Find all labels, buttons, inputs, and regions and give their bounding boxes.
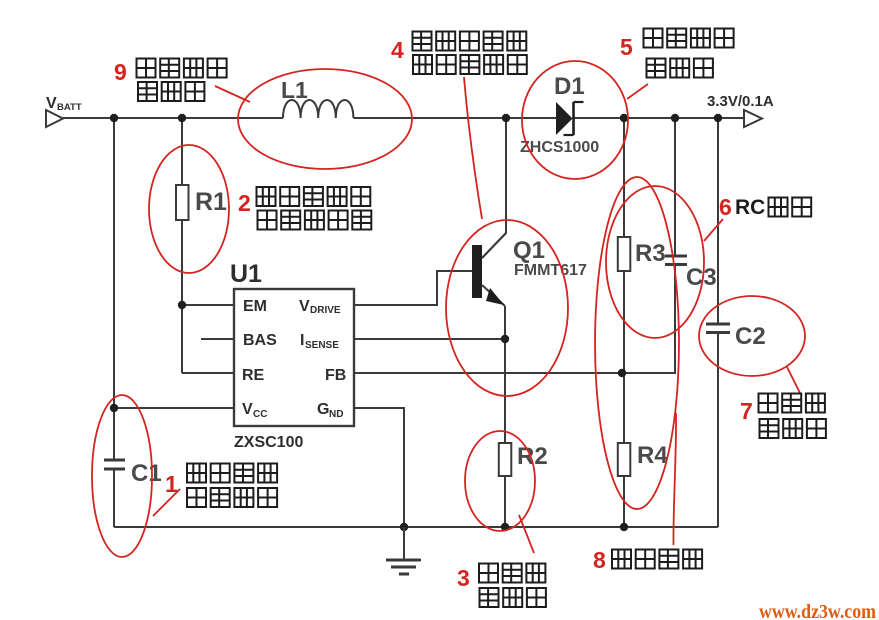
node ground rail / R2: [501, 523, 509, 531]
svg-text:L1: L1: [281, 77, 308, 103]
wire EM pin to R1 node: [182, 304, 234, 306]
svg-text:RE: RE: [242, 367, 265, 384]
wire R1 bottom down to RE row: [181, 220, 183, 373]
svg-text:D1: D1: [554, 73, 585, 100]
pin VCC: [242, 401, 267, 420]
wire R4 top from FB node: [623, 373, 625, 443]
resistor R4: [618, 442, 669, 476]
annotation text 9 line1: shu-chu-sheng-dian: [137, 59, 227, 78]
wire left branch VBATT node down to C1: [113, 118, 115, 459]
annotation tall ellipse around R3 R4 divider: [595, 177, 679, 509]
svg-text:I: I: [300, 332, 304, 349]
svg-text:FB: FB: [325, 367, 346, 384]
node ground rail / GND pin: [400, 523, 408, 531]
wire GND pin down to ground rail: [354, 408, 404, 527]
svg-text:CC: CC: [253, 409, 267, 420]
capacitor C2: [706, 323, 766, 350]
svg-text:EM: EM: [243, 298, 267, 315]
svg-text:3: 3: [457, 565, 470, 591]
annotation text 6: bu-chang: [769, 198, 812, 217]
annotation ellipse around R3 C3: [606, 186, 704, 338]
wire top rail left (VBATT to L1): [63, 117, 283, 119]
wire bottom ground rail: [114, 526, 718, 528]
wire BAS pin stub: [201, 338, 234, 340]
annotation ellipse around Q1: [446, 220, 568, 396]
annotation text 3 line1: dian-liu-jian: [479, 564, 545, 583]
wire RE pin: [182, 372, 234, 374]
inductor L1: [283, 100, 353, 118]
node VBATT rail / C1 branch: [110, 114, 118, 122]
ground: [386, 527, 421, 574]
wire Q1 emitter down through ISENSE node to R2: [504, 306, 506, 443]
wire VDRIVE pin to Q1 base: [354, 271, 472, 305]
diode D1 ZHCS1000: [556, 102, 584, 135]
leader line 5 to D1: [627, 84, 648, 99]
annotation text 9 line2: ya-dian-gan: [138, 82, 204, 101]
annotation text 4 line1: shu-chu-sheng-ya-gong: [413, 32, 527, 51]
annotation text 1 line2: lv-bo-dian-rong: [187, 488, 277, 507]
svg-text:SENSE: SENSE: [305, 340, 339, 351]
wire VCC pin to left branch: [114, 407, 234, 409]
output terminal arrow: [744, 110, 762, 127]
annotation ellipse around C2: [699, 296, 805, 376]
svg-text:BAS: BAS: [243, 332, 277, 349]
capacitor C3: [665, 256, 717, 291]
svg-text:Q1: Q1: [513, 237, 545, 264]
wire R3 top to output rail: [623, 118, 625, 237]
svg-text:ZXSC100: ZXSC100: [234, 434, 303, 451]
node ISENSE / Q1 emitter: [501, 335, 509, 343]
annotation text 8: shu-chu-qu-yang: [612, 550, 702, 569]
op-amp U1 ZXSC100 body: [234, 289, 354, 426]
svg-text:C2: C2: [735, 323, 766, 350]
svg-text:8: 8: [593, 547, 606, 573]
svg-text:ND: ND: [329, 409, 343, 420]
resistor R2: [499, 443, 548, 476]
svg-text:R3: R3: [635, 240, 666, 267]
svg-text:V: V: [46, 95, 57, 112]
wire top rail right (D1 to output): [573, 117, 744, 119]
svg-text:7: 7: [740, 398, 753, 424]
wire C3 top to output rail: [674, 118, 676, 255]
svg-text:FMMT617: FMMT617: [514, 262, 587, 279]
svg-text:6: 6: [719, 194, 732, 220]
annotation text 1 line1: dian-yuan-gong-dian: [187, 464, 277, 483]
wire R3 bottom to FB node: [623, 271, 625, 373]
wire R4 bottom to ground rail: [623, 476, 625, 527]
leader line 8 to divider: [673, 413, 676, 545]
svg-text:G: G: [317, 401, 329, 418]
svg-text:C1: C1: [131, 460, 162, 487]
annotation text 4 line2: gong-lv-kai-guan-guan: [413, 55, 527, 74]
svg-text:U1: U1: [230, 260, 262, 288]
svg-text:5: 5: [620, 34, 633, 60]
svg-text:BATT: BATT: [57, 102, 82, 113]
node EM / R1: [178, 301, 186, 309]
svg-text:4: 4: [391, 37, 404, 63]
wire FB pin to divider and C3: [354, 372, 676, 374]
capacitor C1: [104, 460, 162, 487]
node VCC / C1 branch: [110, 404, 118, 412]
node ground rail / R4: [620, 523, 628, 531]
svg-text:DRIVE: DRIVE: [310, 305, 341, 316]
annotation text 2 line1: gao-di-gong-lv-gong: [257, 187, 371, 206]
annotation text 5 line2: er-ji-guan: [647, 59, 713, 78]
annotation text 5 line1: shu-chu-sheng-ya: [644, 29, 734, 48]
node output rail / R3: [620, 114, 628, 122]
annotation text 7 line1: shu-chu-lv: [759, 394, 825, 413]
svg-text:9: 9: [114, 59, 127, 85]
leader line 4 to Q1: [464, 77, 482, 219]
annotation ellipse around C1: [92, 395, 152, 557]
wire C3 bottom to FB wire: [674, 265, 676, 373]
annotation text 3 line2: ce-dian-zu: [480, 588, 546, 607]
annotation text 2 line2: zuo-mo-shi-she-ding: [258, 211, 372, 230]
annotation ellipse around R2: [465, 431, 535, 531]
wire ISENSE pin to Q1 emitter: [354, 338, 505, 340]
svg-text:2: 2: [238, 190, 251, 216]
node FB divider: [618, 369, 626, 377]
input terminal VBATT arrow: [46, 110, 63, 127]
pin GND: [317, 401, 343, 420]
wire R2 bottom to ground rail: [504, 476, 506, 527]
wire output branch down through C2: [717, 118, 719, 323]
node R1 branch: [178, 114, 186, 122]
resistor R1: [176, 185, 227, 220]
svg-text:V: V: [299, 298, 310, 315]
wire top rail middle (L1 to D1): [353, 117, 556, 119]
leader line 7 to C2: [787, 367, 800, 393]
svg-text:1: 1: [165, 471, 178, 497]
svg-text:R1: R1: [195, 188, 227, 216]
wire Q1 collector to top rail: [482, 118, 506, 258]
node output rail / C3: [671, 114, 679, 122]
svg-text:R2: R2: [517, 443, 548, 470]
svg-text:R4: R4: [637, 442, 668, 469]
label VBATT: [46, 95, 82, 113]
transistor Q1 FMMT617: [472, 233, 506, 306]
annotation ellipse around D1: [522, 61, 628, 179]
leader line 6 to R3C3: [704, 219, 723, 241]
annotation ellipse around L1: [238, 69, 412, 169]
resistor R3: [618, 237, 666, 271]
svg-text:V: V: [242, 401, 253, 418]
annotation text 7 line2: bo-dian-rong: [760, 419, 826, 438]
leader line 9 to L1: [215, 86, 250, 102]
svg-text:3.3V/0.1A: 3.3V/0.1A: [707, 93, 774, 110]
wire C2 bottom to ground rail: [717, 333, 719, 527]
leader line 3 to R2: [519, 515, 534, 553]
svg-text:www.dz3w.com: www.dz3w.com: [759, 601, 876, 620]
pin VDRIVE: [299, 298, 341, 316]
node D1 anode / Q1 collector: [502, 114, 510, 122]
node output rail / C2: [714, 114, 722, 122]
wire C1 bottom to ground rail: [113, 470, 115, 527]
pin ISENSE: [300, 332, 339, 351]
svg-text:RC: RC: [735, 196, 765, 219]
annotation ellipse around R1: [149, 145, 229, 273]
wire R1 branch top: [181, 118, 183, 185]
leader line 1 to C1: [153, 489, 180, 516]
